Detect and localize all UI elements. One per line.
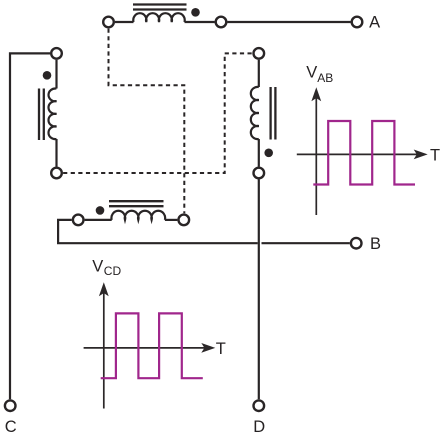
polarity dot L3 <box>96 206 105 215</box>
winding L4 bottom terminal <box>253 168 264 179</box>
terminal C <box>5 400 16 411</box>
wire L2 bottom stub <box>55 139 57 167</box>
polarity dot L4 <box>264 149 273 158</box>
terminal A <box>352 17 363 28</box>
svg-text:V: V <box>92 258 103 276</box>
wire to node A <box>227 21 350 23</box>
polarity dot L2 <box>43 71 52 80</box>
wire node B run (right of crossover gap) <box>262 242 350 244</box>
wire L3 right stub inner <box>85 219 112 221</box>
dashed link L1-left to L3-right <box>109 29 185 214</box>
waveform V_AB <box>313 121 415 185</box>
core lines L2 <box>39 89 44 141</box>
winding L4 top terminal (right vertical winding) <box>253 48 264 59</box>
terminal D <box>253 400 264 411</box>
winding L4 coil <box>251 87 259 139</box>
svg-text:T: T <box>216 340 226 358</box>
svg-text:T: T <box>430 146 440 164</box>
terminal B <box>351 238 362 249</box>
dashed link L2-bottom to L4-top <box>63 53 252 173</box>
core lines L4 <box>271 87 276 140</box>
winding L2 top terminal <box>51 48 62 59</box>
winding L3 coil <box>111 211 165 220</box>
wire L1 left stub <box>115 21 134 23</box>
winding L1 left terminal (top horizontal winding) <box>103 17 114 28</box>
winding L2 coil (left vertical winding) <box>49 89 57 140</box>
wire L3 to node B (left corner and bottom run) <box>58 220 258 243</box>
wire L4 top stub <box>258 60 260 87</box>
polarity dot L1 <box>191 8 200 17</box>
svg-text:B: B <box>370 235 381 253</box>
graph V_CD axis arrowheads <box>99 282 215 353</box>
waveform V_CD <box>101 313 203 378</box>
winding L1 coil <box>133 13 184 22</box>
svg-text:V: V <box>306 64 317 82</box>
wire L2 top stub <box>55 60 57 89</box>
winding L2 bottom terminal <box>51 168 62 179</box>
winding L3 right terminal <box>179 215 190 226</box>
wire to terminal D <box>258 179 260 399</box>
winding L1 right terminal <box>216 17 227 28</box>
wire L3 right stub <box>165 219 178 221</box>
wire C riser (left vertical from top-left corner down to terminal C) <box>10 53 50 399</box>
svg-text:AB: AB <box>317 71 333 85</box>
svg-text:C: C <box>5 418 17 436</box>
svg-text:CD: CD <box>104 264 122 278</box>
winding L3 left terminal (middle horizontal winding) <box>73 215 84 226</box>
core lines L3 <box>109 201 164 206</box>
svg-text:A: A <box>369 14 380 32</box>
graph V_AB vertical axis <box>297 96 417 215</box>
core lines L1 <box>133 5 187 10</box>
wire L1 right stub <box>185 21 215 23</box>
svg-text:D: D <box>253 418 265 436</box>
graph V_CD vertical axis <box>84 291 205 409</box>
graph V_AB axis arrowheads <box>311 87 427 159</box>
wire L4 bottom stub <box>258 139 260 167</box>
